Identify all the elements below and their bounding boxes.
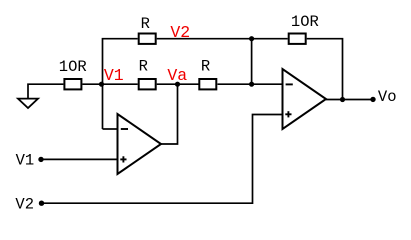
wire R3 to op-amp U2 inverting input: [218, 83, 283, 85]
junction output node: [340, 97, 345, 102]
node V1: [99, 66, 124, 87]
node V2: [170, 23, 254, 42]
svg-text:Va: Va: [167, 66, 187, 85]
wire U1 output to Va: [161, 84, 178, 144]
wire to U1 inverting input: [103, 128, 118, 130]
wire R4 to R5: [157, 38, 288, 40]
svg-text:R: R: [141, 15, 150, 33]
op-amp U1: [118, 114, 162, 174]
wire R5 to output node: [307, 39, 343, 100]
svg-text:Vo: Vo: [378, 88, 397, 106]
resistor R5 10R top: [289, 13, 319, 44]
input terminal V1: [16, 151, 44, 169]
svg-text:V2: V2: [15, 196, 34, 214]
wire V1 terminal to U1 non-inverting input: [41, 158, 118, 160]
junction main row x=251.6: [249, 82, 254, 87]
wire V2 terminal to U2 non-inverting input: [42, 115, 283, 204]
svg-text:V1: V1: [16, 151, 35, 169]
wire top feedback left: [103, 39, 138, 129]
input terminal V2: [15, 196, 44, 214]
wire ground stem to R1: [28, 84, 63, 99]
wire R2 to R3: [157, 83, 199, 85]
wire R1 to R2: [82, 83, 137, 85]
svg-text:1OR: 1OR: [291, 13, 319, 31]
node Va: [167, 66, 187, 87]
ground: [18, 99, 38, 108]
svg-text:V1: V1: [104, 66, 124, 85]
svg-text:1OR: 1OR: [59, 58, 87, 76]
svg-text:R: R: [201, 57, 210, 75]
output terminal Vo: [370, 88, 396, 106]
wire U2 output to Vo: [326, 99, 371, 101]
svg-text:V2: V2: [170, 23, 190, 42]
resistor R1 10R: [59, 58, 87, 89]
op-amp U2: [283, 69, 327, 129]
resistor R3 R: [199, 57, 216, 89]
resistor R2 R: [139, 57, 156, 89]
wire vertical V2 node to main row: [251, 39, 253, 84]
resistor R4 R top: [139, 15, 156, 44]
svg-text:R: R: [139, 57, 148, 75]
